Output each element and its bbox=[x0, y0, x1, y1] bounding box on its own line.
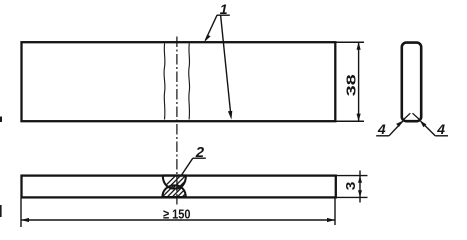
svg-text:38: 38 bbox=[345, 74, 359, 96]
svg-text:≥ 150: ≥ 150 bbox=[163, 207, 191, 222]
svg-text:3: 3 bbox=[343, 182, 358, 191]
svg-text:4: 4 bbox=[436, 121, 445, 137]
svg-text:4: 4 bbox=[377, 121, 386, 137]
